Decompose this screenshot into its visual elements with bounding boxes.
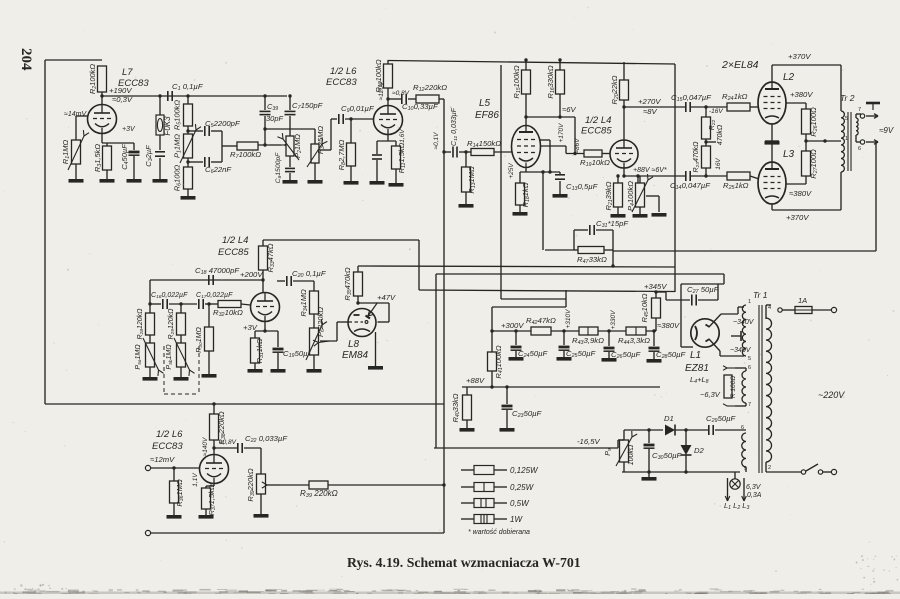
- svg-text:0,3A: 0,3A: [747, 492, 762, 499]
- svg-text:C81500pF: C81500pF: [275, 152, 283, 183]
- svg-text:≈0,1V: ≈0,1V: [433, 132, 440, 150]
- svg-text:+380V: +380V: [790, 90, 813, 99]
- svg-text:C2450µF: C2450µF: [518, 349, 549, 359]
- svg-text:R433,9kΩ: R433,9kΩ: [572, 336, 604, 346]
- svg-text:1/2 L4: 1/2 L4: [585, 115, 611, 126]
- svg-text:R11MΩ: R11MΩ: [61, 139, 71, 164]
- svg-text:1/2 L6: 1/2 L6: [156, 429, 183, 440]
- svg-text:EM84: EM84: [342, 350, 369, 361]
- svg-text:ECC85: ECC85: [218, 247, 249, 258]
- svg-text:R443,3kΩ: R443,3kΩ: [618, 336, 650, 346]
- svg-text:ECC83: ECC83: [152, 441, 183, 452]
- svg-text:L5: L5: [479, 98, 491, 109]
- svg-text:C2850µF: C2850µF: [656, 350, 687, 360]
- svg-text:C2550µF: C2550µF: [566, 349, 597, 359]
- svg-text:R16330kΩ: R16330kΩ: [546, 65, 556, 98]
- svg-text:1,6V: 1,6V: [399, 129, 406, 143]
- svg-text:C2650µF: C2650µF: [611, 350, 642, 360]
- svg-text:R12220kΩ: R12220kΩ: [413, 83, 447, 93]
- svg-text:C2950µF: C2950µF: [706, 414, 737, 424]
- svg-text:R131MΩ: R131MΩ: [467, 166, 477, 194]
- svg-text:+370V: +370V: [788, 52, 811, 61]
- svg-text:L7: L7: [122, 67, 133, 78]
- svg-text:+88V ≈6V*: +88V ≈6V*: [633, 167, 667, 174]
- svg-text:1: 1: [845, 136, 848, 142]
- svg-text:1: 1: [748, 299, 751, 305]
- svg-text:C20 0,1µF: C20 0,1µF: [292, 269, 327, 279]
- svg-text:C90,01µF: C90,01µF: [341, 104, 375, 114]
- svg-text:204: 204: [18, 48, 34, 71]
- svg-text:100kΩ: 100kΩ: [628, 444, 635, 465]
- svg-text:P5a1MΩ: P5a1MΩ: [135, 344, 143, 370]
- svg-text:R29120kΩ: R29120kΩ: [168, 308, 176, 340]
- svg-text:-16V: -16V: [709, 108, 723, 115]
- svg-text:6: 6: [741, 425, 744, 431]
- svg-text:+200V: +200V: [240, 270, 263, 279]
- svg-text:4: 4: [768, 305, 771, 311]
- svg-text:6,3V: 6,3V: [746, 484, 762, 491]
- svg-text:R35470kΩ: R35470kΩ: [343, 267, 353, 300]
- svg-text:D1: D1: [664, 414, 674, 423]
- svg-text:≈120V: ≈120V: [378, 81, 385, 100]
- svg-text:ECC83: ECC83: [118, 78, 149, 89]
- svg-text:C27 50µF: C27 50µF: [687, 285, 720, 295]
- svg-text:1A: 1A: [798, 296, 807, 305]
- svg-text:R371,5kΩ: R371,5kΩ: [207, 484, 217, 515]
- svg-text:Tr 2: Tr 2: [840, 93, 855, 103]
- svg-text:+3V: +3V: [122, 126, 136, 133]
- svg-text:+345V: +345V: [644, 282, 667, 291]
- svg-text:2: 2: [768, 465, 771, 471]
- svg-text:D2: D2: [694, 446, 705, 455]
- svg-text:R2100kΩ: R2100kΩ: [88, 64, 98, 95]
- svg-text:R301MΩ: R301MΩ: [196, 327, 204, 353]
- svg-text:C7150pF: C7150pF: [292, 101, 324, 111]
- svg-text:1/2 L4: 1/2 L4: [222, 235, 248, 246]
- svg-text:6: 6: [858, 146, 861, 152]
- svg-text:5: 5: [845, 116, 848, 122]
- svg-text:R361MΩ: R361MΩ: [175, 479, 185, 507]
- svg-text:≈140V: ≈140V: [202, 437, 209, 456]
- svg-text:L1 L2 L3: L1 L2 L3: [724, 501, 749, 511]
- svg-text:C130,5µF: C130,5µF: [566, 182, 599, 192]
- svg-text:2×EL84: 2×EL84: [721, 59, 759, 71]
- svg-text:C622nF: C622nF: [205, 165, 232, 175]
- svg-text:1W: 1W: [510, 515, 523, 524]
- svg-text:R181kΩ: R181kΩ: [521, 182, 531, 207]
- svg-text:≈12mV: ≈12mV: [150, 455, 175, 464]
- svg-text:R39220kΩ: R39220kΩ: [246, 468, 256, 501]
- svg-text:R31,5kΩ: R31,5kΩ: [93, 144, 103, 172]
- svg-text:-16,5V: -16,5V: [577, 437, 601, 446]
- svg-text:R28120kΩ: R28120kΩ: [137, 308, 145, 340]
- svg-text:R2022kΩ: R2022kΩ: [610, 75, 620, 104]
- svg-text:C2350µF: C2350µF: [512, 409, 543, 419]
- svg-text:Tr 1: Tr 1: [753, 290, 768, 300]
- svg-text:R14150kΩ: R14150kΩ: [467, 139, 501, 149]
- svg-text:0,5W: 0,5W: [510, 499, 530, 508]
- svg-text:R4510kΩ: R4510kΩ: [640, 293, 650, 322]
- svg-text:16V: 16V: [715, 158, 722, 170]
- svg-text:C52200pF: C52200pF: [205, 119, 241, 129]
- svg-text:L3: L3: [783, 149, 795, 160]
- svg-text:1/2 L6: 1/2 L6: [330, 66, 357, 77]
- svg-text:≈6V: ≈6V: [562, 105, 576, 114]
- svg-text:Rys. 4.19. Schemat wzmacniacza: Rys. 4.19. Schemat wzmacniacza W-701: [347, 555, 581, 570]
- svg-text:+310V: +310V: [565, 309, 572, 329]
- svg-text:R26100Ω: R26100Ω: [809, 107, 819, 137]
- svg-text:* wartość dobierana: * wartość dobierana: [468, 529, 530, 536]
- svg-text:R111,5kΩ: R111,5kΩ: [397, 142, 407, 173]
- svg-text:L2: L2: [783, 72, 795, 83]
- svg-text:R 100Ω: R 100Ω: [730, 376, 737, 398]
- svg-text:~6,3V: ~6,3V: [700, 390, 721, 399]
- svg-text:30pF: 30pF: [266, 114, 284, 123]
- svg-text:R5100kΩ: R5100kΩ: [173, 100, 183, 131]
- svg-text:+47V: +47V: [377, 293, 396, 302]
- svg-text:0,25W: 0,25W: [510, 483, 535, 492]
- svg-text:P21MΩ: P21MΩ: [293, 134, 303, 158]
- svg-text:EF86: EF86: [475, 110, 499, 121]
- svg-text:R15100kΩ: R15100kΩ: [512, 65, 522, 98]
- svg-text:ECC83: ECC83: [326, 77, 357, 88]
- svg-text:R7100kΩ: R7100kΩ: [230, 150, 261, 160]
- svg-text:+330V: +330V: [610, 310, 617, 330]
- svg-text:R4033kΩ: R4033kΩ: [451, 393, 461, 422]
- svg-text:R39 220kΩ: R39 220kΩ: [300, 489, 338, 499]
- svg-text:~340V: ~340V: [730, 347, 752, 354]
- svg-text:+170V: +170V: [558, 123, 565, 143]
- svg-text:7: 7: [858, 107, 861, 113]
- svg-text:R3347kΩ: R3347kΩ: [266, 243, 276, 272]
- svg-text:P5b1MΩ: P5b1MΩ: [166, 344, 174, 370]
- svg-text:P6220kΩ: P6220kΩ: [316, 307, 326, 337]
- svg-text:F0K3: F0K3: [163, 116, 172, 136]
- svg-text:470kΩ: 470kΩ: [717, 124, 724, 145]
- svg-text:7: 7: [748, 402, 751, 408]
- svg-text:C3050µF: C3050µF: [652, 451, 683, 461]
- svg-text:+25V: +25V: [508, 163, 515, 179]
- svg-text:~220V: ~220V: [818, 390, 845, 400]
- svg-text:≈9V: ≈9V: [879, 126, 894, 135]
- svg-text:1,1V: 1,1V: [192, 473, 199, 487]
- svg-text:R41100kΩ: R41100kΩ: [494, 345, 504, 378]
- svg-text:R241kΩ: R241kΩ: [722, 92, 748, 102]
- svg-text:+88V: +88V: [466, 376, 485, 385]
- svg-text:P4100kΩ: P4100kΩ: [626, 181, 636, 211]
- svg-text:R341MΩ: R341MΩ: [299, 289, 309, 317]
- svg-text:+300V: +300V: [501, 321, 524, 330]
- svg-text:R3210kΩ: R3210kΩ: [213, 308, 243, 318]
- svg-text:C31*15pF: C31*15pF: [596, 219, 629, 229]
- svg-text:≈380V: ≈380V: [657, 321, 680, 330]
- svg-text:L8: L8: [348, 339, 360, 350]
- svg-text:R6100Ω: R6100Ω: [173, 164, 183, 191]
- svg-text:P11MΩ: P11MΩ: [173, 134, 183, 158]
- svg-text:R4733kΩ: R4733kΩ: [577, 255, 607, 265]
- svg-text:C450µF: C450µF: [120, 144, 130, 170]
- svg-text:~340V: ~340V: [733, 319, 755, 326]
- svg-text:≈8V: ≈8V: [643, 107, 657, 116]
- svg-text:R2139kΩ: R2139kΩ: [604, 181, 614, 210]
- svg-text:R27100Ω: R27100Ω: [809, 149, 819, 179]
- svg-text:EZ81: EZ81: [685, 363, 709, 374]
- svg-text:R251kΩ: R251kΩ: [723, 181, 749, 191]
- svg-text:R311kΩ: R311kΩ: [255, 338, 265, 363]
- svg-text:R1910kΩ: R1910kΩ: [580, 158, 610, 168]
- svg-text:0,125W: 0,125W: [510, 466, 539, 475]
- svg-text:R23470kΩ: R23470kΩ: [693, 141, 701, 173]
- svg-text:≈86V: ≈86V: [574, 138, 581, 154]
- svg-text:5: 5: [748, 356, 751, 362]
- svg-text:R82,7MΩ: R82,7MΩ: [337, 139, 347, 170]
- svg-text:+370V: +370V: [786, 213, 809, 222]
- svg-text:+270V: +270V: [638, 97, 661, 106]
- svg-text:6: 6: [748, 365, 751, 371]
- svg-text:R4247kΩ: R4247kΩ: [526, 316, 556, 326]
- svg-text:L1: L1: [690, 350, 701, 361]
- svg-text:C1 0,1µF: C1 0,1µF: [172, 82, 204, 92]
- svg-text:≈380V: ≈380V: [789, 189, 812, 198]
- svg-text:ECC85: ECC85: [581, 126, 612, 137]
- svg-text:≈0,8V: ≈0,8V: [219, 439, 237, 446]
- svg-text:C32µF: C32µF: [144, 145, 154, 167]
